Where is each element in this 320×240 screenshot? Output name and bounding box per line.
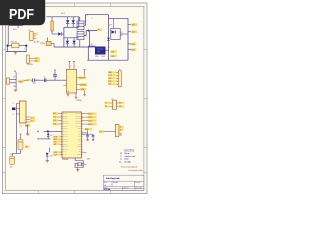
net label [34,57,40,59]
svg-text:B1: B1 [91,44,93,46]
pins right [77,77,79,79]
ground [14,90,18,92]
ground [46,161,49,163]
LED D9 [112,30,116,34]
svg-text:www.circuits-diy.com: www.circuits-diy.com [121,166,138,169]
svg-text:RV1 230: RV1 230 [11,42,17,44]
decoupling caps right [82,132,88,134]
net label [131,23,137,26]
svg-text:RESET: RESET [77,154,81,156]
wire [9,45,12,47]
svg-text:LN2: LN2 [132,32,135,34]
wire [20,136,22,139]
svg-text:22p: 22p [84,164,87,166]
svg-text:MOSI: MOSI [54,136,58,138]
border ticks [2,3,147,194]
pins right [26,116,30,118]
svg-text:B: B [120,130,121,132]
left pin group 1 labels [53,112,58,125]
net label texts [27,71,122,156]
wire [44,130,62,132]
net label [34,60,40,62]
svg-text:PD2/INT0: PD2/INT0 [63,136,69,138]
svg-text:PB4/MISO: PB4/MISO [63,123,69,125]
svg-text:U4: U4 [67,91,69,93]
LED D12 [46,153,49,156]
svg-text:Number: Number [113,182,118,184]
svg-text:INT1: INT1 [53,124,56,126]
power [37,138,39,140]
svg-text:PC6/RST: PC6/RST [63,128,68,130]
net label [131,48,136,51]
wire [19,45,25,47]
capacitor C9 [43,78,45,82]
wire VCC arrow [84,31,97,36]
junction [47,130,50,133]
svg-text:PD4/XCK: PD4/XCK [63,141,68,143]
net label [79,83,87,86]
svg-text:RXD: RXD [119,103,122,105]
net label [27,79,31,81]
wire [89,31,91,47]
wire [88,45,95,47]
net label [80,88,86,91]
wire [17,25,19,28]
left pin group 3 labels [53,151,60,153]
sheet inner border [5,6,144,190]
wire top rail [47,16,79,18]
page background [0,0,149,198]
wire [52,33,58,35]
svg-text:PDF: PDF [9,6,34,23]
pins [61,114,83,155]
power [84,69,86,72]
diode D5 [6,44,9,47]
diode D3 horizontal [58,32,61,35]
ground [67,93,69,94]
svg-text:VC: VC [27,80,29,82]
svg-text:PB7: PB7 [79,151,82,153]
svg-text:PB2/SS: PB2/SS [63,118,67,120]
svg-text:PD1/TXD: PD1/TXD [63,133,68,135]
svg-text:LN3: LN3 [131,44,134,46]
wire [49,148,51,153]
svg-text:TX1: TX1 [53,117,56,119]
diode D2 [72,17,74,20]
wire [82,152,87,154]
svg-text:9V: 9V [85,21,87,23]
svg-text:Diod: Diod [124,159,129,161]
ground [75,93,77,97]
svg-text:SCK: SCK [54,141,57,143]
wire [51,17,53,21]
power +5V [14,71,16,72]
net label [110,50,117,53]
svg-text:2: 2 [92,18,93,20]
svg-text:Revision: Revision [135,182,141,184]
svg-text:K1: K1 [121,35,123,37]
wire [127,18,129,60]
wire [25,47,27,52]
svg-text:RX: RX [31,121,33,123]
svg-text:Component Markings: Component Markings [124,148,134,151]
wire right drop [27,125,29,134]
svg-text:RST: RST [54,144,57,146]
wire right rail [108,15,110,61]
svg-text:P3 SER: P3 SER [27,64,34,66]
wire [51,44,54,48]
varistor RV1 [12,43,19,48]
svg-text:VN1: VN1 [111,52,115,54]
net label [30,117,35,120]
svg-text:PB6: PB6 [79,149,82,151]
wire lower rail [64,37,79,39]
svg-text:SCL: SCL [108,84,111,86]
svg-text:PB3/MOSI: PB3/MOSI [63,121,69,123]
svg-text:VN2: VN2 [111,56,115,58]
connector J2 [118,71,121,87]
wire [47,131,49,133]
svg-text:free schematics online: free schematics online [129,169,143,172]
svg-text:VCC: VCC [78,141,81,143]
svg-text:PB0/ICP: PB0/ICP [63,113,68,115]
ground [86,139,94,142]
net label [18,80,24,83]
svg-text:C4: C4 [36,80,38,82]
svg-text:PD0/RXD: PD0/RXD [63,131,68,133]
capacitor C5 shunt [54,76,56,80]
wire bottom rail [54,46,96,48]
capacitor C1 electrolytic [18,139,23,150]
svg-text:D2: D2 [50,135,52,137]
connector P1 [30,32,33,41]
wire [47,38,49,42]
svg-text:AC230: AC230 [34,40,39,43]
diode D6 [25,44,28,47]
ground [15,52,17,53]
bridge module B1 [96,47,106,54]
PDF badge [0,0,45,25]
diode D7 [73,38,75,41]
wire [75,158,83,168]
wire [105,49,109,51]
svg-text:D8: D8 [109,25,111,27]
svg-text:LM358: LM358 [77,100,82,102]
svg-text:GND2: GND2 [78,146,82,148]
wire [12,150,20,156]
fuse F2 [46,41,51,45]
wire [79,40,81,47]
net label [99,130,104,133]
diode D11 [47,134,50,137]
svg-text:TXD: TXD [119,106,122,108]
svg-text:PB5/SCK: PB5/SCK [63,126,68,128]
svg-text:P2: P2 [119,69,121,71]
svg-text:TX: TX [31,118,33,120]
svg-text:Resis: Resis [124,153,130,155]
svg-text:3: 3 [13,114,14,116]
svg-text:J4: J4 [111,98,113,100]
power [54,70,56,72]
capacitor C4 series [32,78,34,82]
svg-text:U2: U2 [20,125,22,127]
svg-text:REF: REF [25,125,28,127]
net label [131,30,137,33]
net label [30,119,35,122]
op-amp U4 [67,69,77,93]
svg-text:PWMOUT: PWMOUT [79,78,86,80]
svg-text:PB1/OC1: PB1/OC1 [63,116,68,118]
net label [110,55,117,57]
svg-text:GND: GND [108,78,111,80]
diode D4 [66,38,68,41]
crystal Y1 [78,163,81,166]
svg-text:RX: RX [105,106,107,108]
svg-text:10u: 10u [10,166,13,168]
left pin group 2 labels [53,136,60,145]
jumper J4 [113,100,117,109]
wire [6,51,27,53]
svg-text:VSOL: VSOL [108,75,112,77]
net label [25,146,29,149]
net label [78,77,86,80]
svg-text:INT0: INT0 [53,120,56,122]
connector P3 [27,55,30,63]
capacitor C7 [85,128,93,130]
ground [77,168,79,170]
svg-text:P1: P1 [28,30,30,32]
wire [84,15,109,26]
svg-text:ISEN: ISEN [81,89,85,91]
wire [51,31,53,34]
fuse F1 [51,21,53,31]
wire [109,17,129,19]
svg-text:Q1: Q1 [121,32,123,34]
diode D1 [67,17,69,20]
power [20,134,22,136]
schematic sheet [2,3,147,194]
svg-text:VSENSE: VSENSE [80,85,86,87]
pins top [69,64,71,70]
wire [79,17,81,21]
svg-text:Q1: Q1 [108,47,110,49]
power [69,61,71,63]
svg-text:Size: Size [104,182,107,184]
svg-text:LED2: LED2 [54,154,58,156]
svg-text:BR1: BR1 [95,56,98,58]
svg-text:8/29/2009: 8/29/2009 [104,189,110,191]
wire chain at y=80 [24,79,32,81]
wire [87,46,89,60]
svg-text:LN4: LN4 [131,50,134,52]
wire bottom bus [87,59,128,61]
svg-text:val: val [132,156,136,158]
ground [26,134,29,136]
capacitor C2 electrolytic [10,156,15,165]
svg-text:LN1: LN1 [132,25,135,27]
svg-text:100n: 100n [32,82,36,84]
diode D10 [107,38,110,41]
connector P4 [7,78,10,84]
svg-text:RX0: RX0 [53,113,56,115]
wire [7,25,9,44]
capacitor C8 [92,135,95,137]
net label VDC [97,28,102,30]
wire [84,72,86,77]
wire mid rail [64,26,79,28]
wire [7,47,9,52]
svg-text:ACIN: ACIN [13,28,17,31]
svg-text:Arduino Charge Controller: Arduino Charge Controller [106,177,120,180]
wire AC under badge [9,24,23,26]
relay K1 box [111,29,120,40]
wire [39,138,51,140]
svg-text:C2: C2 [10,154,12,156]
wire [63,27,65,47]
wire stubs [128,24,131,26]
power [73,61,75,63]
pin left [64,84,67,86]
svg-text:IC chip: IC chip [124,162,131,164]
svg-text:C9: C9 [44,77,46,79]
svg-text:TX: TX [105,103,107,105]
svg-text:Drawn By: Drawn By [136,187,142,189]
wire [113,18,115,28]
svg-text:1: 1 [13,103,14,105]
svg-text:PD3/INT1: PD3/INT1 [63,138,69,140]
connector J5 [115,125,119,137]
pin name text columns inside IC [63,112,82,156]
right pin labels [88,112,97,125]
wire left rail [15,104,17,154]
net label [131,43,136,46]
svg-text:D1-4: D1-4 [61,13,65,15]
wire [120,33,128,35]
svg-text:GND: GND [78,144,81,146]
svg-text:PWR: PWR [18,81,23,83]
wire [78,17,80,28]
pins left [16,103,19,105]
svg-text:LED1: LED1 [54,152,58,154]
svg-text:34: 34 [120,134,122,137]
wire [75,163,77,165]
ground [84,91,86,95]
svg-text:PD5/T1: PD5/T1 [63,144,67,146]
